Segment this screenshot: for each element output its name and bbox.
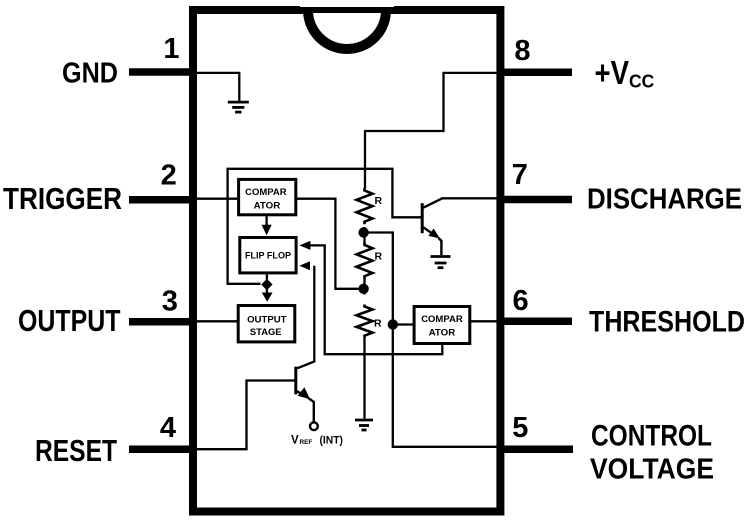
svg-text:CONTROL: CONTROL <box>591 420 712 453</box>
svg-text:COMPAR: COMPAR <box>245 187 287 198</box>
svg-text:8: 8 <box>514 35 530 67</box>
svg-text:(INT): (INT) <box>320 435 344 447</box>
svg-text:OUTPUT: OUTPUT <box>247 315 287 326</box>
svg-text:RESET: RESET <box>35 433 117 468</box>
svg-text:R: R <box>375 195 383 207</box>
svg-text:7: 7 <box>512 159 528 191</box>
svg-text:STAGE: STAGE <box>250 327 282 338</box>
svg-text:TRIGGER: TRIGGER <box>3 181 122 216</box>
svg-text:VOLTAGE: VOLTAGE <box>590 453 714 485</box>
svg-text:DISCHARGE: DISCHARGE <box>587 183 742 215</box>
svg-text:GND: GND <box>62 58 118 90</box>
svg-text:FLIP FLOP: FLIP FLOP <box>245 251 292 262</box>
svg-text:R: R <box>374 318 382 330</box>
svg-text:V: V <box>291 434 299 446</box>
svg-text:COMPAR: COMPAR <box>421 314 463 325</box>
svg-text:+V: +V <box>595 54 630 91</box>
svg-text:ATOR: ATOR <box>254 200 281 211</box>
svg-text:6: 6 <box>513 285 529 317</box>
svg-text:4: 4 <box>160 412 176 444</box>
svg-text:OUTPUT: OUTPUT <box>18 304 121 338</box>
svg-text:REF: REF <box>300 439 313 446</box>
svg-text:ATOR: ATOR <box>429 327 456 338</box>
svg-text:1: 1 <box>163 33 179 65</box>
svg-text:CC: CC <box>629 71 654 92</box>
svg-text:5: 5 <box>512 412 528 444</box>
svg-text:3: 3 <box>162 285 178 317</box>
svg-text:2: 2 <box>161 159 177 191</box>
svg-text:THRESHOLD: THRESHOLD <box>589 305 745 338</box>
svg-text:R: R <box>375 250 383 262</box>
